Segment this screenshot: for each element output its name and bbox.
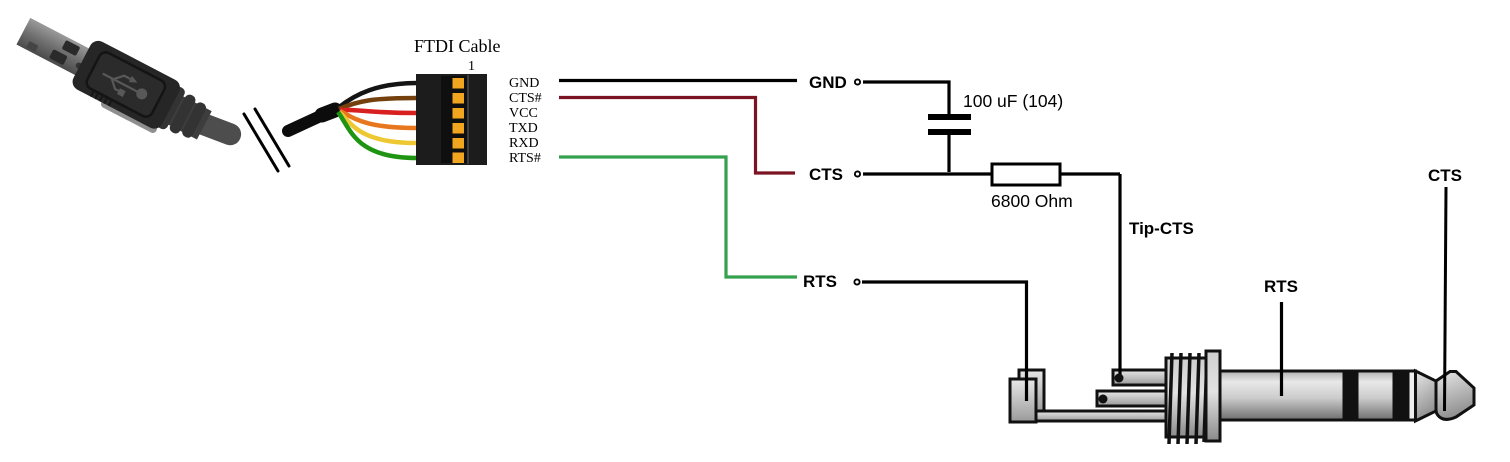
svg-text:1: 1: [468, 59, 475, 74]
svg-text:Tip-CTS: Tip-CTS: [1129, 219, 1194, 238]
svg-text:RTS#: RTS#: [509, 151, 541, 166]
svg-text:RTS: RTS: [1264, 277, 1298, 296]
svg-text:VCC: VCC: [509, 106, 538, 121]
svg-text:GND: GND: [509, 76, 539, 91]
svg-text:TXD: TXD: [509, 121, 538, 136]
svg-text:CTS: CTS: [1428, 166, 1462, 185]
svg-text:GND: GND: [809, 73, 847, 92]
svg-text:RXD: RXD: [509, 136, 539, 151]
svg-text:6800 Ohm: 6800 Ohm: [991, 191, 1073, 211]
svg-text:CTS: CTS: [809, 165, 843, 184]
svg-text:FTDI Cable: FTDI Cable: [414, 36, 500, 56]
svg-text:100 uF (104): 100 uF (104): [963, 91, 1063, 111]
svg-text:RTS: RTS: [803, 272, 837, 291]
svg-text:CTS#: CTS#: [509, 91, 542, 106]
